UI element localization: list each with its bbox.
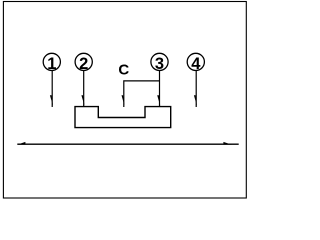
leader wire 4	[195, 71, 197, 108]
callout circle 3	[151, 53, 168, 70]
svg-text:4: 4	[191, 55, 201, 73]
arrowhead 3	[157, 95, 160, 106]
dimension C bracket	[124, 81, 160, 107]
svg-text:3: 3	[155, 55, 164, 73]
arrowhead 2	[81, 95, 84, 106]
arrowhead C	[122, 95, 125, 106]
callout circle 2	[75, 53, 92, 70]
leader wire 3	[159, 71, 161, 107]
svg-text:1: 1	[47, 55, 56, 73]
arrow barb left	[17, 142, 25, 145]
arrowhead 4	[194, 95, 197, 106]
leader wire 2	[83, 71, 85, 107]
svg-text:C: C	[118, 61, 129, 78]
svg-text:2: 2	[79, 55, 88, 73]
leader wire 1	[51, 71, 53, 108]
arrowhead 1	[50, 95, 53, 106]
switch body profile	[75, 107, 171, 128]
travel dimension line	[17, 143, 238, 145]
border frame	[3, 2, 246, 199]
arrow barb right	[223, 142, 231, 145]
callout circle 4	[187, 53, 204, 70]
callout circle 1	[43, 53, 60, 70]
